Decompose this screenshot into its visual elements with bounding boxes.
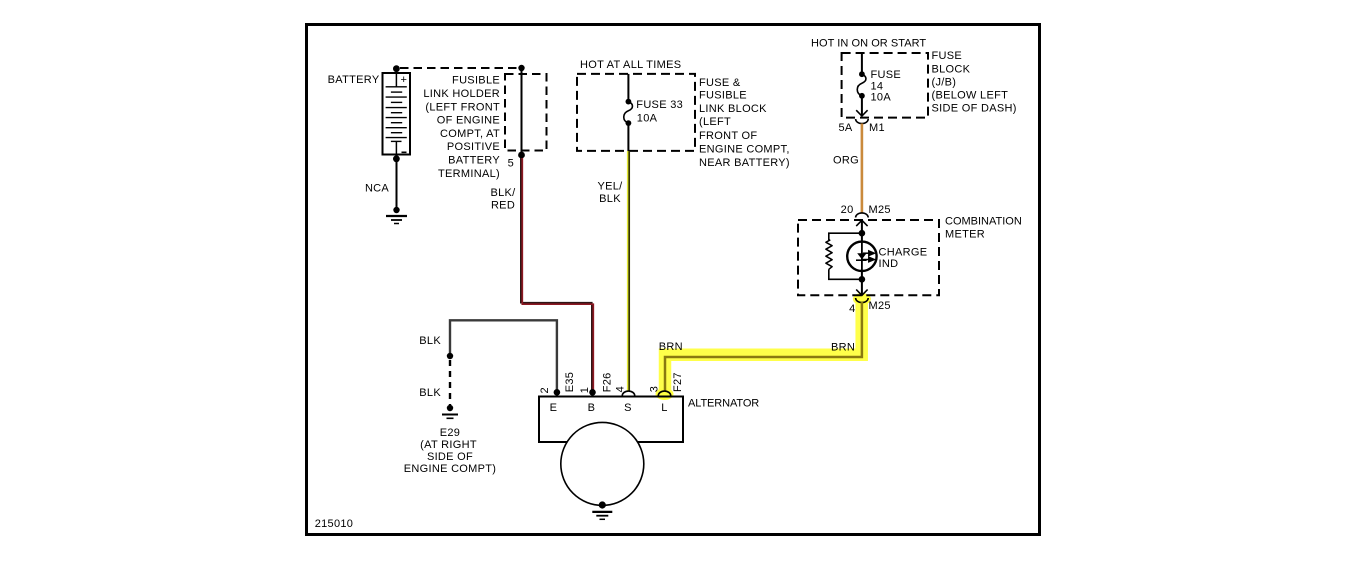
svg-text:2: 2 [539, 387, 551, 393]
svg-text:BLOCK: BLOCK [932, 63, 971, 75]
svg-text:1: 1 [579, 387, 591, 393]
svg-text:(LEFT FRONT: (LEFT FRONT [425, 101, 500, 113]
svg-text:BLK: BLK [419, 387, 441, 399]
svg-text:BATTERY: BATTERY [448, 155, 500, 167]
svg-text:FUSIBLE: FUSIBLE [699, 90, 747, 102]
svg-text:E35: E35 [564, 372, 576, 392]
svg-text:M25: M25 [869, 204, 891, 216]
svg-text:POSITIVE: POSITIVE [447, 141, 500, 153]
svg-text:NCA: NCA [365, 183, 389, 195]
svg-text:(J/B): (J/B) [932, 76, 957, 88]
svg-text:RED: RED [491, 200, 515, 212]
svg-text:L: L [661, 402, 667, 414]
svg-text:FUSE: FUSE [932, 50, 963, 62]
svg-text:4: 4 [615, 386, 627, 392]
svg-text:B: B [588, 402, 596, 414]
svg-text:FUSE &: FUSE & [699, 77, 741, 89]
svg-text:FRONT OF: FRONT OF [699, 130, 757, 142]
svg-text:E: E [550, 402, 558, 414]
svg-text:BLK: BLK [599, 193, 621, 205]
svg-text:M1: M1 [869, 122, 885, 134]
svg-text:LINK BLOCK: LINK BLOCK [699, 103, 767, 115]
svg-text:BLK: BLK [419, 335, 441, 347]
svg-text:OF ENGINE: OF ENGINE [437, 115, 500, 127]
svg-text:4: 4 [849, 303, 855, 315]
svg-text:COMPT, AT: COMPT, AT [440, 128, 500, 140]
svg-text:M25: M25 [869, 300, 891, 312]
svg-text:10A: 10A [637, 113, 658, 125]
svg-text:ENGINE COMPT): ENGINE COMPT) [404, 463, 497, 475]
svg-text:10A: 10A [871, 91, 892, 103]
svg-text:HOT IN ON OR START: HOT IN ON OR START [811, 37, 926, 49]
svg-text:CHARGE: CHARGE [879, 246, 928, 258]
svg-text:S: S [624, 402, 632, 414]
svg-text:BLK/: BLK/ [490, 187, 516, 199]
svg-text:HOT AT ALL TIMES: HOT AT ALL TIMES [580, 59, 681, 71]
svg-text:SIDE OF: SIDE OF [427, 451, 473, 463]
svg-text:NEAR BATTERY): NEAR BATTERY) [699, 157, 790, 169]
svg-text:(BELOW LEFT: (BELOW LEFT [932, 90, 1009, 102]
svg-text:F27: F27 [672, 372, 684, 392]
svg-text:+: + [401, 74, 408, 86]
svg-text:LINK HOLDER: LINK HOLDER [423, 88, 500, 100]
svg-text:BRN: BRN [831, 342, 855, 354]
svg-text:BATTERY: BATTERY [328, 74, 380, 86]
svg-text:IND: IND [879, 258, 899, 270]
svg-text:ALTERNATOR: ALTERNATOR [688, 398, 759, 410]
svg-text:(AT RIGHT: (AT RIGHT [420, 439, 477, 451]
svg-text:YEL/: YEL/ [597, 181, 623, 193]
svg-text:TERMINAL): TERMINAL) [438, 168, 500, 180]
svg-text:ENGINE COMPT,: ENGINE COMPT, [699, 143, 790, 155]
svg-text:ORG: ORG [833, 155, 859, 167]
svg-text:SIDE OF DASH): SIDE OF DASH) [932, 103, 1017, 115]
svg-text:E29: E29 [440, 427, 460, 439]
svg-text:5: 5 [508, 158, 514, 170]
svg-text:3: 3 [649, 386, 661, 392]
svg-text:FUSIBLE: FUSIBLE [452, 75, 500, 87]
svg-text:BRN: BRN [659, 341, 683, 353]
svg-text:F26: F26 [601, 372, 613, 392]
svg-text:5A: 5A [838, 122, 852, 134]
svg-text:20: 20 [841, 204, 854, 216]
svg-text:METER: METER [945, 229, 985, 241]
svg-text:FUSE 33: FUSE 33 [636, 99, 683, 111]
svg-text:(LEFT: (LEFT [699, 116, 731, 128]
svg-text:COMBINATION: COMBINATION [945, 216, 1022, 228]
svg-text:215010: 215010 [315, 518, 354, 530]
